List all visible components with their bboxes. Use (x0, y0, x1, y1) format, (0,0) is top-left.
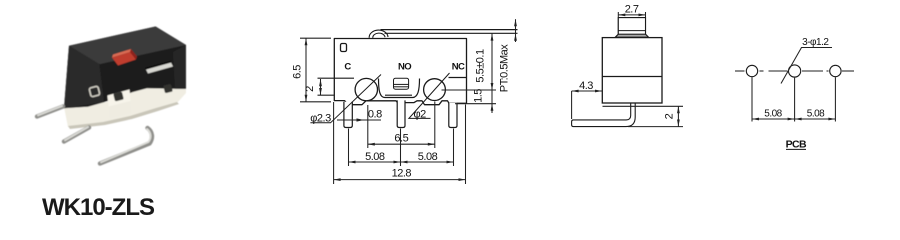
side button (615, 18, 648, 38)
lever arm lines (381, 30, 518, 34)
svg-text:4.3: 4.3 (579, 80, 593, 92)
pcb centerline (735, 70, 854, 72)
svg-text:2.7: 2.7 (625, 4, 639, 16)
leader 3-phi1.2 (781, 48, 832, 84)
svg-text:5.08: 5.08 (418, 151, 438, 163)
svg-text:5.08: 5.08 (807, 108, 825, 119)
dim 4.3 (572, 91, 602, 119)
photo: switch base (white plastic) (64, 87, 186, 129)
side pin bent (572, 104, 636, 127)
dim 2 left (318, 79, 335, 95)
front body outline (334, 39, 466, 105)
dim 6.5 bottom (368, 102, 435, 167)
dim 1.5 (455, 103, 496, 105)
pin 3 front (449, 103, 457, 128)
pcb hole 1 (746, 65, 757, 76)
svg-text:1.5: 1.5 (473, 89, 485, 103)
labels C NO NC (344, 62, 465, 73)
side body (602, 38, 662, 103)
svg-text:5.08: 5.08 (764, 108, 782, 119)
front hole right (NC) (424, 79, 446, 101)
pcb hole 2 (789, 65, 801, 77)
svg-text:φ2: φ2 (414, 108, 427, 120)
dim 12.8 (334, 102, 466, 184)
svg-text:6.5: 6.5 (394, 133, 408, 145)
svg-text:PCB: PCB (786, 139, 807, 151)
photo: pin 2 (64, 127, 89, 142)
leader phi2.3 (310, 75, 381, 123)
small top-left hole (341, 44, 347, 52)
svg-text:0.8: 0.8 (368, 108, 382, 120)
dim 5.5±0.1 (442, 34, 497, 113)
svg-text:2: 2 (304, 86, 316, 92)
svg-text:5.08: 5.08 (365, 151, 385, 163)
front hole left (C) (355, 78, 377, 100)
lever hook (369, 30, 388, 38)
photo: pin 3 bent (100, 128, 152, 164)
svg-text:NO: NO (398, 62, 411, 73)
photo: base towers and marks (89, 84, 173, 119)
svg-text:6.5: 6.5 (292, 65, 304, 79)
pcb hole 3 (830, 65, 841, 76)
leader phi2 (409, 73, 450, 118)
pin 2 front (397, 100, 405, 127)
pcb dims 5.08 (752, 77, 835, 121)
dim 2 side (603, 106, 684, 126)
pin 1 front (344, 102, 352, 128)
dim 6.5 left (300, 38, 331, 102)
svg-text:C: C (344, 62, 351, 73)
photo: pin 1 (37, 106, 63, 117)
photo: lever slot (145, 61, 173, 74)
photo: red button (112, 49, 137, 66)
NO contact block (394, 78, 409, 89)
dim 5.08 left (349, 129, 454, 167)
front internal bridge contour (318, 78, 467, 98)
photo: switch black body (64, 27, 186, 109)
dim PT:0.5Max (515, 19, 517, 42)
svg-text:2: 2 (664, 113, 676, 119)
svg-text:WK10-ZLS: WK10-ZLS (42, 194, 155, 218)
svg-text:5.5±0.1: 5.5±0.1 (475, 49, 487, 83)
svg-text:12.8: 12.8 (392, 168, 412, 180)
dim 2.7 (618, 12, 645, 17)
svg-text:PT:0.5Max: PT:0.5Max (499, 44, 511, 92)
svg-text:NC: NC (452, 62, 465, 73)
svg-text:3-φ1.2: 3-φ1.2 (802, 37, 829, 48)
svg-text:φ2.3: φ2.3 (310, 113, 331, 125)
